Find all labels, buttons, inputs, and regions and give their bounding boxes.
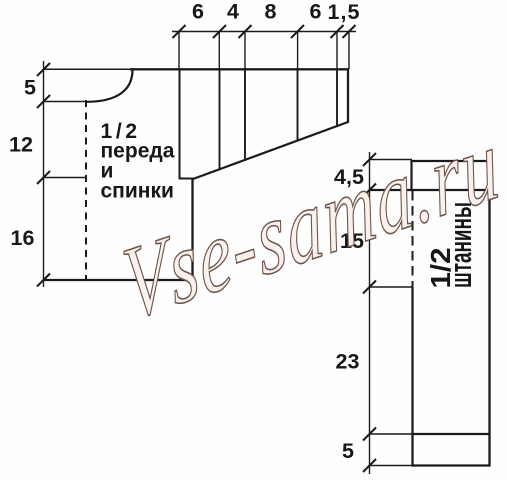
extension 23/5 hem <box>370 433 414 435</box>
top tick 5 <box>331 25 344 38</box>
top tick 2 <box>213 25 226 38</box>
trouser left edge top segment <box>410 160 412 191</box>
svg-text:6: 6 <box>310 0 322 24</box>
svg-text:23: 23 <box>336 350 360 374</box>
trouser bottom edge <box>412 464 491 466</box>
jog at underarm <box>179 178 194 180</box>
svg-text:16: 16 <box>11 226 35 250</box>
top extension vertical 1 <box>178 32 180 70</box>
slanted yoke bottom <box>193 122 348 179</box>
top extension vertical 4 <box>297 32 299 70</box>
svg-text:1,5: 1,5 <box>328 0 361 24</box>
tick 16 bottom <box>37 274 50 287</box>
section line a <box>219 69 221 170</box>
center front dashed fold line <box>85 100 87 279</box>
svg-text:Vse-sama.ru: Vse-sama.ru <box>117 105 507 343</box>
right dimension line vertical <box>369 152 371 474</box>
neckline curve <box>86 70 133 102</box>
svg-text:5: 5 <box>342 439 354 463</box>
top tick 4 <box>291 25 304 38</box>
tick 4,5 top <box>363 153 376 166</box>
svg-text:4: 4 <box>227 0 239 24</box>
extension line neck drop <box>44 101 87 103</box>
top edge of yoke <box>130 68 349 70</box>
top extension line left <box>44 68 133 70</box>
top extension vertical 3 <box>244 32 246 70</box>
trouser left dashed segment <box>412 191 414 287</box>
trouser right edge <box>488 160 490 467</box>
tick 5/12 <box>37 95 50 108</box>
hem line 5 <box>412 433 490 435</box>
svg-text:6: 6 <box>192 0 204 24</box>
tick 23/5 <box>363 428 376 441</box>
waistband line 4,5 <box>370 189 491 191</box>
section line b <box>244 69 246 161</box>
front edge vertical <box>179 69 181 179</box>
watermark Vse-sama.ru <box>117 105 507 343</box>
left dimension line vertical <box>43 61 45 287</box>
section line d <box>336 69 338 127</box>
svg-text:спинки: спинки <box>101 180 174 203</box>
svg-text:5: 5 <box>24 76 36 100</box>
trouser left edge solid <box>411 287 413 467</box>
top tick 6 <box>343 25 356 38</box>
tick 5 bottom <box>363 459 376 472</box>
tick 4,5/15 <box>363 184 376 197</box>
svg-text:8: 8 <box>265 0 277 24</box>
side edge vertical <box>191 178 193 281</box>
svg-text:12: 12 <box>9 133 33 157</box>
extension 15/23 <box>370 286 413 288</box>
text 1/2 штанины rotated <box>426 202 478 289</box>
tick 15/23 <box>363 281 376 294</box>
right edge of yoke <box>347 69 349 123</box>
extension bottom right piece <box>370 465 413 467</box>
top tick 3 <box>239 25 252 38</box>
trouser top edge <box>411 160 491 162</box>
top extension vertical 2 <box>218 32 220 70</box>
tick 5 top <box>37 63 50 76</box>
tick 12/16 <box>37 171 50 184</box>
top dimension line horizontal <box>172 31 356 33</box>
extension line 12/16 <box>44 177 88 179</box>
top extension vertical 5 <box>336 32 338 70</box>
section line c <box>297 69 299 142</box>
top extension vertical 6 <box>348 32 350 70</box>
top tick 1 <box>173 25 186 38</box>
bottom edge <box>44 279 194 281</box>
extension top right piece <box>370 159 413 161</box>
